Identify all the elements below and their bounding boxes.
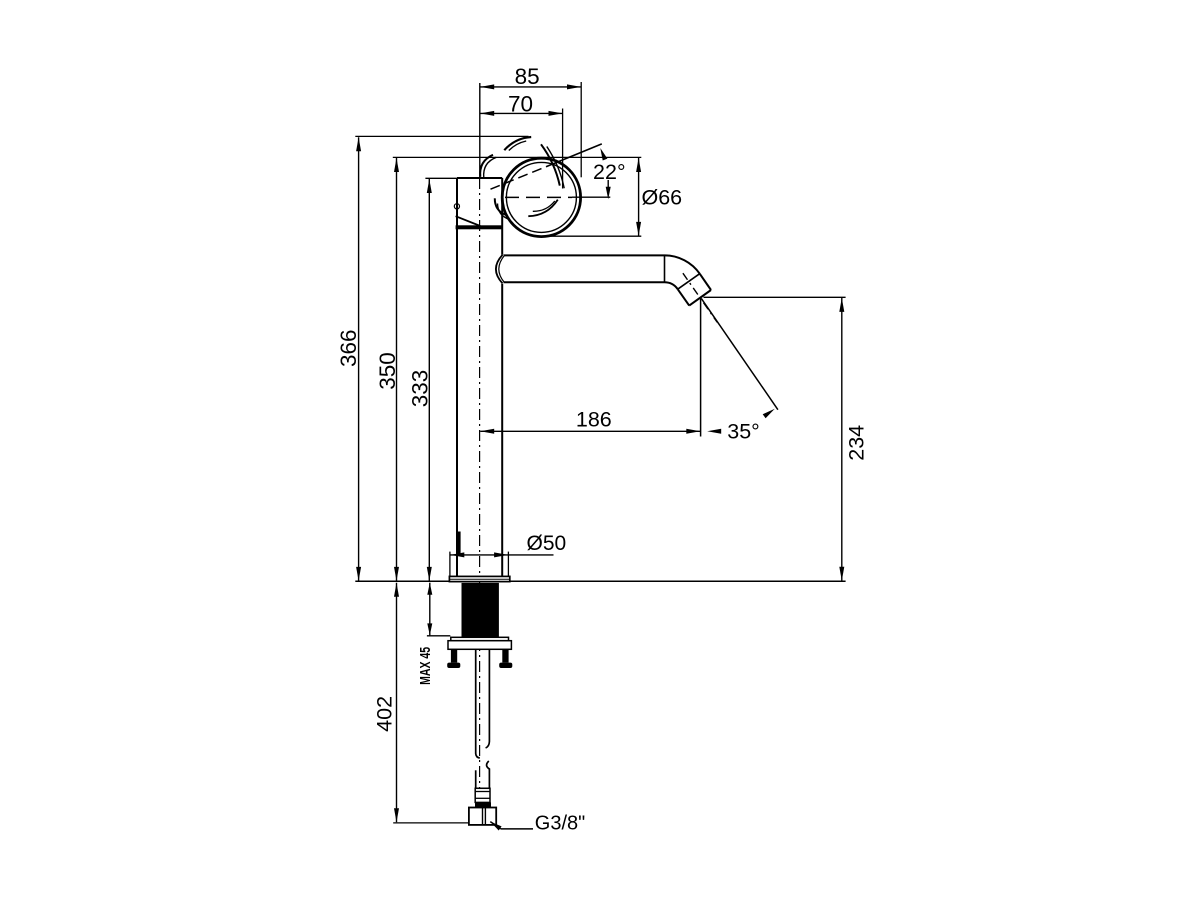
reflection arc inside knob outer [528,200,558,217]
ghost arc: raised handle top outer [504,137,531,150]
dimension 22deg leader dash [607,180,609,187]
supply hose right wall resume hook [487,761,490,788]
small pivot bump on body left edge [454,204,459,209]
spout bend outer arc [665,255,700,273]
spout bend inner arc [665,282,678,289]
left stud bolt stem [451,649,457,662]
dimension 85 left arrow [480,84,494,89]
mounting nut lower plate [448,641,511,650]
dimension 22deg down arrow [606,187,611,200]
hose collar ring line 1 [475,791,490,793]
dimension 333 bottom arrow [427,567,432,581]
dimension O50 left arrow [450,552,464,557]
dimension 350 bottom arrow [394,567,399,581]
knob tilted axis dashed part (22 deg) [491,167,547,190]
svg-text:186: 186 [576,408,612,432]
spout top edge [504,254,665,256]
dimension O66 bottom arrow [636,222,641,236]
faucet body column right edge lower [501,284,503,577]
dimension 186 right arrow [686,429,700,434]
svg-text:G3/8": G3/8" [535,812,585,834]
threaded shank (black) [462,583,499,637]
centerline solid extension above body (for 85/70 dims) [479,83,481,178]
dimension 366 extension line [355,135,528,137]
faucet body column left edge [456,178,458,576]
cartridge joint thick band [456,225,502,229]
svg-text:85: 85 [515,64,540,89]
dimension 402 bottom arrow [394,808,399,822]
G3/8 hex nut body [469,808,496,825]
dimension 186 left arrow [480,429,494,434]
left stud bolt foot [447,663,460,668]
dimension 70 left arrow [480,111,494,116]
dimension O50 right extension line [507,552,509,577]
dimension 35deg left arrow [707,429,721,434]
mounting washer upper plate [451,637,509,640]
dimension 333 extension line [425,177,457,179]
svg-text:Ø66: Ø66 [642,186,683,210]
hex nut facet line 1 [482,808,484,825]
aerator flow axis dash-dot [683,273,717,322]
svg-text:22°: 22° [593,160,626,184]
knob tilted axis solid part [546,144,602,167]
aerator end face [689,290,711,306]
ghost arc: lower-left crossing outer [495,198,506,215]
svg-text:333: 333 [407,370,432,408]
knob horizontal dashed center line [505,196,572,198]
dimension 366 top arrow [356,137,361,151]
svg-text:MAX 45: MAX 45 [417,647,434,685]
ghost arc: lower-left crossing inner [498,204,510,220]
hose collar ring line 2 [475,797,490,799]
dimension O66 bottom tangent line [537,235,641,237]
dimension 85 line [480,86,581,88]
G3/8 leader arrow [490,822,501,831]
dimension 22deg arrow on tilted axis [600,148,607,161]
svg-text:350: 350 [375,352,400,390]
aerator seam [678,274,700,290]
dimension 234 top extension line [704,296,846,298]
dimension MAX45 bottom arrow [427,623,432,635]
G3/8 leader horizontal [501,828,533,830]
dimension 333 line [428,179,430,581]
dimension 350 line [396,158,398,581]
G3/8 leader diagonal [490,822,501,829]
dimension 85 right arrow [567,84,581,89]
centerline (dash-dot) of faucet [479,178,481,807]
ghost arc: raised handle left inner [484,157,497,178]
dimension 402 line [396,583,398,823]
dimension MAX45 bottom extension line [427,635,450,637]
dimension 402 bottom extension line [393,822,469,824]
spout left cap outer arc [496,255,503,284]
right stud bolt stem [502,649,508,662]
svg-text:402: 402 [373,696,397,732]
svg-text:Ø50: Ø50 [527,532,567,555]
dimension O50 left extension line [449,552,451,577]
dimension MAX45 top arrow [427,583,432,595]
water stream direction line [701,298,778,409]
faucet body top edge [457,177,502,179]
dimension O50 line [450,554,554,556]
supply hose left wall lower [475,770,477,788]
handle knob outer circle [502,158,580,236]
supply hose right wall upper [486,649,490,748]
dimension 350 extension line (top tangent of knob) [393,156,642,158]
spout left cap inner arc [499,255,505,282]
dimension O50 right arrow [494,552,508,557]
aerator tip vertical reference line [700,298,702,436]
dark slot detail inside column above base [457,532,461,555]
ghost arc: swing path right outer [541,144,560,185]
dimension 186 line [480,430,700,432]
svg-text:35°: 35° [727,419,760,443]
hose collar band [475,788,490,802]
dimension 234 bottom arrow [839,567,844,581]
dimension 234 line [841,298,843,581]
right stud bolt foot [499,663,512,668]
aerator inner side [678,289,690,305]
handle knob inner circle [506,162,576,232]
base flange plate [449,576,509,581]
supply hose left wall upper [476,649,480,758]
ghost arc: swing path right inner [547,147,564,189]
hose collar top line [475,787,490,789]
faucet body column right edge upper [501,178,503,255]
reflection arc inside knob inner [533,201,555,211]
aerator outer side [700,274,711,290]
dimension 85 right extension line [580,82,582,177]
dimension 366 line [358,137,360,581]
dimension 35deg arrow at stream line [763,409,775,419]
dimension 366 bottom arrow [356,567,361,581]
dimension 333 top arrow [427,179,432,193]
dimension 70 line [480,112,562,114]
svg-text:70: 70 [508,92,533,117]
dimension 350 top arrow [394,158,399,172]
hose collar black band [475,802,491,807]
body slant detail line [456,216,481,226]
svg-text:234: 234 [845,425,869,461]
spout bend seam [664,255,666,282]
hex nut facet line 2 [484,808,486,825]
ghost arc: raised handle top inner [509,141,526,151]
dimension 402 top arrow [394,583,399,597]
knob center line solid extension right [572,196,610,198]
ghost arc: raised handle left outer [480,155,493,177]
dimension O66 top arrow [636,158,641,172]
dimension 70 right arrow [549,111,563,116]
dimension 70 right extension line [562,109,564,189]
dimension O66 line [638,158,640,236]
dimension 234 top arrow [839,298,844,312]
base flange mid line [449,578,509,580]
spout bottom edge [504,281,665,283]
dimension MAX45 line [429,583,431,636]
counter/reference surface line [355,580,845,582]
svg-text:366: 366 [336,329,361,367]
